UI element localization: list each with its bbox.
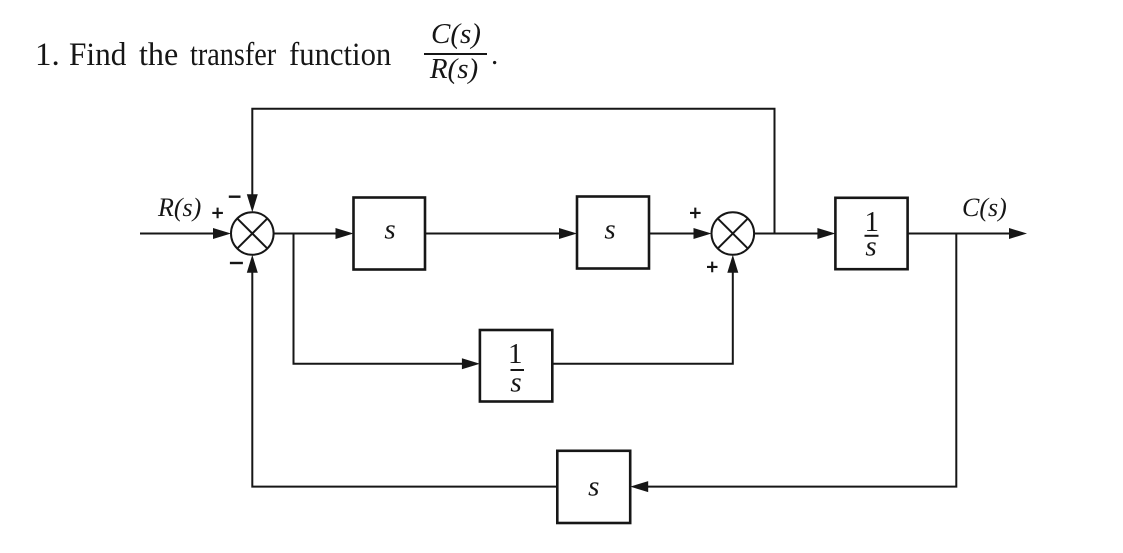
- summing junction 2: [712, 212, 755, 255]
- wire: bottom block to junction 1 bottom: [252, 270, 557, 487]
- arrowhead into summing junction 2: [694, 228, 712, 239]
- arrowhead up into junction 1 bottom: [247, 255, 258, 273]
- block G3 "1/s": [835, 198, 907, 269]
- wire: junction 1 to block G1: [274, 233, 338, 235]
- block G4 "1/s" (middle): [480, 330, 552, 402]
- arrowhead into block G1: [336, 228, 354, 239]
- plus sign at junction 1 input: [212, 208, 223, 219]
- svg-text:1: 1: [508, 338, 523, 370]
- wire: bottom feedback from output pickoff: [646, 234, 957, 487]
- fraction bar in G3: [865, 235, 879, 237]
- svg-text:C(s): C(s): [962, 193, 1007, 222]
- minus sign below junction 1: [230, 262, 243, 264]
- plus sign at junction 2 bottom: [707, 262, 718, 273]
- wire: block G1 to block G2: [425, 233, 561, 235]
- plus sign at junction 2 left: [690, 208, 701, 219]
- arrowhead into summing junction 1: [213, 228, 231, 239]
- summing junction 1: [231, 212, 274, 255]
- svg-text:s: s: [604, 214, 615, 246]
- fraction bar in G4: [511, 369, 525, 371]
- minus sign above junction 1: [229, 195, 241, 197]
- block G2 "s": [577, 197, 649, 269]
- wire: junction 2 to block G3: [754, 233, 820, 235]
- arrowhead up into junction 2 bottom: [727, 255, 738, 273]
- fraction C(s)/R(s): [423, 19, 489, 50]
- wire: output line from G3: [908, 233, 1012, 235]
- block G5 "s" (bottom): [557, 451, 630, 523]
- svg-text:s: s: [384, 214, 395, 246]
- title text "1. Find the transfer function": [35, 39, 60, 72]
- block G1 "s": [354, 198, 426, 270]
- arrowhead down into junction 1 top: [247, 194, 258, 212]
- svg-text:s: s: [588, 471, 599, 503]
- fraction bar: [424, 53, 487, 55]
- wire: middle block to junction 2 bottom: [552, 270, 733, 364]
- output arrowhead: [1009, 228, 1027, 239]
- wire: top feedback loop: [252, 109, 774, 234]
- svg-text:R(s): R(s): [157, 193, 201, 222]
- period after fraction: [491, 40, 498, 71]
- arrowhead left into bottom block s: [630, 481, 648, 492]
- svg-text:s: s: [510, 367, 521, 399]
- wire: input line from R(s): [140, 233, 216, 235]
- wire: block G2 to summing junction 2: [649, 233, 696, 235]
- arrowhead into block G3: [817, 228, 835, 239]
- arrowhead into middle block 1/s: [462, 358, 480, 369]
- wire: inner loop branch down from node A: [294, 234, 465, 364]
- svg-text:s: s: [865, 231, 876, 263]
- arrowhead into block G2: [559, 228, 577, 239]
